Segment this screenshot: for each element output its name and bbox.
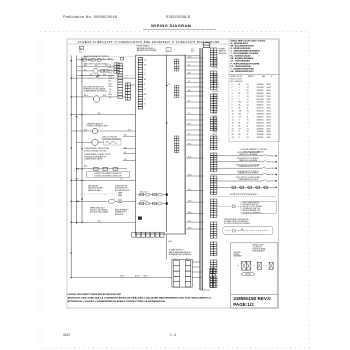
svg-text:11: 11 (247, 116, 249, 118)
svg-text:BK: BK (144, 79, 146, 81)
svg-text:13: 13 (247, 137, 249, 139)
svg-text:TABLERO DES RELAIS (: TABLERO DES RELAIS ( (137, 49, 158, 52)
svg-text:BL-2 BK: BL-2 BK (213, 91, 220, 93)
svg-text:ALLUMEUR FOUR: ALLUMEUR FOUR (115, 189, 130, 192)
svg-text:3131417: 3131417 (257, 137, 264, 139)
svg-text:GY-25: GY-25 (213, 111, 218, 113)
svg-text:MONITOR: MONITOR (219, 53, 228, 55)
svg-text:LOCK SWITCH // CERROJO SW: LOCK SWITCH // CERROJO SW (237, 152, 260, 154)
svg-text:3156566: 3156566 (257, 131, 264, 133)
svg-text:LT: LT (144, 89, 146, 91)
svg-text:3114165: 3114165 (257, 90, 264, 92)
svg-text:W-4: W-4 (188, 123, 191, 125)
svg-text:10: 10 (247, 122, 249, 124)
svg-text:14: 14 (247, 128, 249, 130)
svg-text:BK-12: BK-12 (272, 168, 276, 170)
svg-text:8: 8 (232, 105, 233, 107)
svg-text:BK-5: BK-5 (84, 166, 88, 168)
svg-text:R-2: R-2 (84, 69, 86, 71)
svg-text:W: W (239, 122, 241, 124)
svg-text:W-5 RL2: W-5 RL2 (213, 84, 219, 86)
svg-text:BL: BL (239, 105, 241, 107)
svg-text:BL-5: BL-5 (188, 72, 191, 74)
svg-text:LT: LT (144, 69, 146, 71)
svg-text:W-8: W-8 (124, 135, 127, 137)
svg-text:GY - GRAY/GRIS/GRIS: GY - GRAY/GRIS/GRIS (231, 60, 251, 63)
svg-text:BK-12: BK-12 (213, 127, 218, 129)
svg-text:PK - PINK/ROSA/ROSE: PK - PINK/ROSA/ROSE (231, 65, 252, 68)
svg-text:OR-6: OR-6 (188, 227, 192, 229)
svg-text:BK-16: BK-16 (135, 276, 140, 278)
svg-text:DOOR SWITCH TO CONTROL //: DOOR SWITCH TO CONTROL // (237, 158, 260, 160)
svg-text:CV: CV (144, 60, 146, 62)
svg-text:LIGHT SWITCH // LUZ DEL HORNO: LIGHT SWITCH // LUZ DEL HORNO (236, 177, 261, 179)
svg-text:13: 13 (232, 119, 234, 121)
svg-text:15: 15 (247, 119, 249, 121)
svg-text:OR-6: OR-6 (188, 174, 192, 176)
svg-text:Y-6: Y-6 (109, 92, 111, 94)
svg-text:GY-15: GY-15 (213, 129, 218, 131)
svg-text:LIGHT SWITCH // LUZ DEL HORNO: LIGHT SWITCH // LUZ DEL HORNO (236, 164, 261, 166)
svg-text:ATENCION: DESCONECTAR LA CORRI: ATENCION: DESCONECTAR LA CORRIENTE ANTES… (68, 297, 213, 300)
svg-text:P4-2 W: P4-2 W (213, 63, 219, 65)
svg-text:11: 11 (247, 125, 249, 127)
svg-text:LT: LT (144, 74, 146, 76)
svg-text:10/12: 10/12 (63, 333, 70, 337)
svg-text:3140512: 3140512 (257, 125, 264, 127)
svg-text:BK-1: BK-1 (84, 57, 87, 59)
svg-text:OR-5: OR-5 (109, 94, 113, 96)
svg-text:14: 14 (232, 122, 234, 124)
svg-text:BK-10: BK-10 (272, 155, 276, 157)
svg-text:W-8: W-8 (124, 147, 127, 149)
svg-text:ATTENTION: COUPEZ L'ALIMENTATI: ATTENTION: COUPEZ L'ALIMENTATION AVANT D… (68, 300, 167, 303)
svg-text:W-9: W-9 (128, 129, 131, 131)
svg-text:BK-8: BK-8 (188, 212, 192, 214)
svg-text:CONVECTION FAN // VENT: CONVECTION FAN // VENT (87, 125, 108, 128)
svg-text:MODULE D'ALLUMAGE: MODULE D'ALLUMAGE (90, 211, 109, 214)
svg-text:NOTAS: WIRE COLOR CODE // CODI: NOTAS: WIRE COLOR CODE // CODIGO (231, 39, 266, 42)
svg-text:OR-4 LT: OR-4 LT (213, 105, 219, 107)
svg-text:COMMUTATEUR DE VERROU: COMMUTATEUR DE VERROU (83, 90, 107, 93)
svg-text:BK-8: BK-8 (84, 129, 87, 131)
svg-text:SMOKE ELIMINATOR CONTROL: SMOKE ELIMINATOR CONTROL (84, 55, 110, 58)
svg-text:VANNE DE GAZ //: VANNE DE GAZ // (88, 189, 102, 192)
svg-text:OR-3: OR-3 (188, 56, 192, 58)
svg-text:N L: N L (79, 52, 82, 54)
svg-text:BK-22: BK-22 (213, 113, 218, 115)
svg-text:R-11: R-11 (188, 221, 191, 223)
svg-text:3189840: 3189840 (257, 134, 264, 136)
svg-text:Y-7 RL4: Y-7 RL4 (213, 79, 219, 81)
svg-text:Y - YELLOW/AMARILLO/JAUNE: Y - YELLOW/AMARILLO/JAUNE (231, 52, 259, 55)
svg-text:BL - BLUE/AZUL/BLEU: BL - BLUE/AZUL/BLEU (231, 55, 252, 58)
svg-text:W-2: W-2 (95, 65, 98, 67)
svg-text:NEUT: NEUT (108, 58, 112, 60)
svg-text:GY-1: GY-1 (105, 65, 108, 67)
svg-text:P4-2 W: P4-2 W (213, 58, 219, 60)
svg-text:W-1: W-1 (103, 58, 106, 60)
svg-text:O - ORANGE/NARANJA/ORANGE: O - ORANGE/NARANJA/ORANGE (231, 50, 261, 53)
svg-text:12: 12 (167, 50, 169, 52)
svg-text:P4-5 BL: P4-5 BL (213, 68, 219, 70)
svg-text:THIS OVEN EQUIPPED: THIS OVEN EQUIPPED (243, 202, 261, 204)
svg-text:W-3: W-3 (109, 83, 112, 85)
svg-text:GY-25: GY-25 (213, 118, 218, 120)
svg-text:BK-12: BK-12 (213, 134, 218, 136)
svg-text:BK-14: BK-14 (272, 181, 276, 183)
svg-text:16: 16 (232, 128, 234, 130)
svg-text:GY-25: GY-25 (213, 120, 218, 122)
svg-text:3182357: 3182357 (257, 116, 264, 118)
svg-text:W-5 RL2: W-5 RL2 (213, 87, 219, 89)
svg-text:BK-2 L1: BK-2 L1 (213, 96, 219, 98)
svg-text:W-9: W-9 (188, 189, 191, 191)
svg-text:4: 4 (232, 93, 233, 95)
svg-text:B-9: B-9 (98, 220, 101, 222)
svg-text:P4-2 W: P4-2 W (213, 65, 219, 67)
svg-text:105C: 105C (267, 102, 272, 104)
svg-text:GROUND: GROUND (234, 252, 242, 254)
svg-text:R-24: R-24 (213, 123, 217, 125)
svg-text:R-11: R-11 (188, 156, 191, 158)
svg-text:105C: 105C (267, 111, 272, 113)
svg-text:W-8: W-8 (124, 159, 127, 161)
svg-text:B-2: B-2 (98, 113, 101, 115)
svg-text:BK-17: BK-17 (144, 276, 149, 278)
svg-text:18: 18 (232, 134, 234, 136)
svg-text:R-4: R-4 (109, 67, 112, 69)
svg-text:318550150 REV:0: 318550150 REV:0 (233, 296, 271, 301)
svg-text:R-4: R-4 (109, 81, 112, 83)
svg-text:ALIMENTATION D'ENERGIE: ALIMENTATION D'ENERGIE (169, 253, 192, 256)
svg-text:17: 17 (232, 131, 234, 133)
svg-text:12: 12 (247, 102, 249, 104)
svg-text:Y-6: Y-6 (109, 89, 111, 91)
svg-text:GN - GREEN/VERDE/VERT: GN - GREEN/VERDE/VERT (231, 71, 255, 73)
svg-text:Y-7 RL4: Y-7 RL4 (213, 77, 219, 79)
svg-text:BK-2: BK-2 (188, 143, 191, 145)
svg-text:W - WHITE/BLANCO: W - WHITE/BLANCO (231, 42, 249, 45)
svg-text:BL: BL (239, 134, 241, 136)
svg-text:3165392: 3165392 (257, 102, 264, 104)
svg-text:B-16: B-16 (169, 241, 172, 243)
svg-text:GY-25: GY-25 (213, 115, 218, 117)
svg-text:W-3: W-3 (109, 73, 112, 75)
svg-text:L1: L1 (174, 259, 176, 261)
svg-text:1-4: 1-4 (170, 333, 176, 337)
svg-text:BK-2 L1: BK-2 L1 (213, 101, 219, 103)
svg-text:N: N (144, 84, 145, 86)
svg-text:11: 11 (247, 108, 249, 110)
svg-text:GY-15: GY-15 (213, 137, 218, 139)
svg-text:R-13 BK-14: R-13 BK-14 (140, 200, 147, 202)
svg-text:W: W (239, 108, 241, 110)
svg-text:DOOR SWITCH TO CONTROL //: DOOR SWITCH TO CONTROL // (237, 171, 260, 173)
svg-text:W-16: W-16 (120, 276, 124, 278)
svg-text:R-9: R-9 (124, 152, 126, 154)
svg-text:105C: 105C (267, 105, 272, 107)
svg-text:BRULEUR: BRULEUR (115, 214, 124, 216)
svg-text:3196673: 3196673 (257, 122, 264, 124)
svg-text:Y-7: Y-7 (120, 179, 122, 181)
svg-text:BR - BROWN/CAFE/BRUN: BR - BROWN/CAFE/BRUN (231, 57, 255, 60)
svg-text:GY-15: GY-15 (213, 132, 218, 134)
svg-text:Publication No. 5995629049: Publication No. 5995629049 (63, 15, 117, 19)
svg-text:OR REMOVE. SEE THE: OR REMOVE. SEE THE (243, 208, 260, 210)
svg-text:3185674: 3185674 (257, 119, 264, 121)
svg-text:PART #: PART # (248, 75, 254, 78)
svg-text:R-7: R-7 (188, 81, 191, 83)
svg-text:N: N (144, 104, 145, 106)
svg-text:CONVECTION ELEMENT ELEMENTO DE: CONVECTION ELEMENT ELEMENTO DE (94, 173, 121, 175)
svg-text:BK-6: BK-6 (75, 179, 79, 181)
svg-text:OVEN CIRCUIT // CIRCUITO DE HO: OVEN CIRCUIT // CIRCUITO DE HORNO // CIR… (78, 40, 220, 44)
svg-text:B-1: B-1 (96, 76, 99, 78)
svg-text:GA.: GA. (262, 75, 266, 78)
svg-text:BK-2 L1: BK-2 L1 (213, 98, 219, 100)
svg-text:R-6 RL3: R-6 RL3 (213, 75, 219, 77)
svg-text:15: 15 (232, 125, 234, 127)
svg-text:EI30GS55LB: EI30GS55LB (166, 15, 190, 19)
svg-text:W: W (239, 93, 241, 95)
svg-text:R-6 RL3: R-6 RL3 (213, 82, 219, 84)
svg-text:Y-6: Y-6 (109, 97, 111, 99)
svg-text:2: 2 (232, 87, 233, 89)
svg-text:3159797: 3159797 (257, 108, 264, 110)
svg-text:7: 7 (232, 102, 233, 104)
svg-text:WIRING DIAGRAM: WIRING DIAGRAM (151, 23, 192, 28)
svg-text:3138221: 3138221 (257, 105, 264, 107)
svg-text:3146048: 3146048 (257, 84, 264, 86)
svg-text:BL: BL (239, 125, 241, 127)
svg-text:17: 17 (247, 99, 249, 101)
svg-text:CONVECCION ELEMENT CONVECTION: CONVECCION ELEMENT CONVECTION (95, 175, 122, 177)
svg-text:9: 9 (232, 108, 233, 110)
svg-text:3187236: 3187236 (257, 99, 264, 101)
svg-text:15: 15 (247, 111, 249, 113)
svg-text:3123434: 3123434 (257, 87, 264, 89)
svg-text:105C: 105C (267, 128, 272, 130)
svg-text:WIRING: WIRING (234, 254, 241, 256)
svg-text:11: 11 (247, 134, 249, 136)
svg-text:P - PURPLE/MORADO/POURPRE: P - PURPLE/MORADO/POURPRE (231, 62, 261, 65)
svg-text:3180284: 3180284 (257, 114, 264, 116)
svg-text:P5 1: P5 1 (191, 49, 194, 51)
svg-text:CAUTION: DISCONNECT POWER BEFO: CAUTION: DISCONNECT POWER BEFORE SERVICI… (68, 293, 123, 296)
svg-text:11: 11 (232, 114, 234, 116)
svg-text:6: 6 (232, 99, 233, 101)
svg-text:R-7: R-7 (188, 64, 191, 66)
svg-text:Y-6: Y-6 (109, 65, 111, 67)
svg-text:W: W (239, 84, 241, 86)
svg-text:BK-11: BK-11 (272, 161, 276, 163)
svg-text:13: 13 (247, 96, 249, 98)
svg-text:Y-9: Y-9 (188, 133, 190, 135)
svg-text:Y-9: Y-9 (188, 113, 190, 115)
svg-text:PAGE:1/2: PAGE:1/2 (233, 302, 254, 307)
svg-text:R-7: R-7 (188, 100, 191, 102)
svg-text:OVEN LIGHT // LUZ DEL HORNO //: OVEN LIGHT // LUZ DEL HORNO // (83, 63, 109, 65)
svg-text:BK 2: BK 2 (191, 51, 194, 53)
svg-text:12: 12 (232, 116, 234, 118)
svg-text:W-4: W-4 (103, 95, 106, 97)
svg-text:19: 19 (232, 137, 234, 139)
svg-text:HORNO // SONDE DU FOUR: HORNO // SONDE DU FOUR (84, 150, 107, 152)
svg-text:150C: 150C (267, 96, 272, 98)
svg-text:BK-13: BK-13 (272, 174, 276, 176)
svg-text:3189131: 3189131 (257, 111, 264, 113)
svg-text:BK - BLACK/NEGRO/NOIR: BK - BLACK/NEGRO/NOIR (231, 44, 255, 47)
svg-text:CONNECTEUR CARTE: CONNECTEUR CARTE (84, 158, 103, 161)
svg-text:3195181: 3195181 (257, 96, 264, 98)
svg-text:1: 1 (232, 84, 233, 86)
svg-text:10: 10 (247, 84, 249, 86)
svg-text:W-2: W-2 (90, 74, 93, 76)
svg-text:150C: 150C (267, 137, 272, 139)
svg-text:15: 15 (247, 131, 249, 133)
svg-text:FIL COULEUR: FIL COULEUR (231, 81, 244, 83)
svg-text:105C: 105C (267, 99, 272, 101)
svg-text:17: 17 (247, 114, 249, 116)
svg-text:BK-2: BK-2 (84, 65, 87, 67)
svg-text:OR-6: OR-6 (188, 201, 192, 203)
svg-text:GROUND: GROUND (245, 274, 251, 276)
svg-text:BK-4: BK-4 (103, 74, 106, 76)
svg-text:BK-3: BK-3 (84, 95, 88, 97)
svg-text:5: 5 (232, 96, 233, 98)
svg-text:10: 10 (232, 111, 234, 113)
svg-text:3140495: 3140495 (257, 93, 264, 95)
svg-text:13: 13 (247, 93, 249, 95)
svg-text:OR-5: OR-5 (109, 86, 113, 88)
svg-text:T - TAN/BRONCEADO/TAN: T - TAN/BRONCEADO/TAN (231, 67, 255, 70)
svg-text:BK-11 W-12: BK-11 W-12 (140, 191, 148, 193)
svg-text:BL-12: BL-12 (213, 125, 217, 127)
svg-text:L1: L1 (168, 84, 170, 86)
svg-text:3: 3 (232, 90, 233, 92)
svg-text:105C: 105C (267, 116, 272, 118)
svg-text:16: 16 (247, 90, 249, 92)
svg-text:12: 12 (247, 87, 249, 89)
svg-text:L1: L1 (144, 99, 146, 101)
svg-text:3169429: 3169429 (257, 128, 264, 130)
svg-text:BK-2: BK-2 (188, 90, 191, 92)
svg-text:12: 12 (247, 105, 249, 107)
